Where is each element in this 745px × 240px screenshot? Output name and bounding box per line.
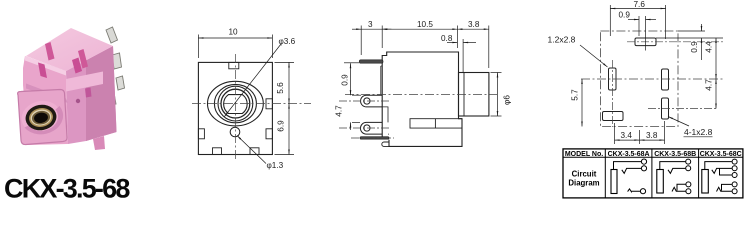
table cell Circuit Diagram — [568, 170, 599, 188]
top view phantom outline — [600, 31, 678, 127]
side view lug 2 — [360, 122, 382, 134]
svg-text:5.6: 5.6 — [276, 82, 285, 94]
photo: groove slot right — [72, 58, 82, 74]
side view barrel — [459, 73, 489, 117]
photo: bottom foot — [93, 136, 105, 150]
top view pad right lower — [662, 98, 669, 119]
dimension phi1.3 leader — [237, 136, 284, 171]
photo: pin top right — [106, 27, 118, 43]
svg-text:10.5: 10.5 — [417, 20, 433, 29]
circuit C top wire — [705, 162, 732, 170]
product photo: pink 3.5mm jack — [18, 27, 125, 150]
svg-text:CKX-3.5-68B: CKX-3.5-68B — [654, 151, 696, 158]
top view centerline vertical top pad — [645, 16, 647, 51]
model number text — [4, 174, 130, 204]
dimension phi3.6 leader — [225, 37, 296, 117]
circuit A terminal 3 — [640, 189, 645, 194]
circuit C switch arm — [712, 168, 732, 173]
circuit C terminal 4 — [732, 182, 737, 187]
svg-text:MODEL No.: MODEL No. — [565, 151, 603, 158]
circuit C sleeve rect — [702, 170, 709, 194]
top view centerline horizontal upper — [627, 41, 723, 43]
circuit B switch arm — [668, 168, 685, 173]
circuit A top wire — [614, 162, 642, 170]
dimension 5.6 / 6.9 — [275, 62, 295, 154]
photo: cap base step — [26, 84, 68, 104]
dimension 10.5 — [382, 20, 457, 48]
side view lug1 centerline — [339, 100, 390, 102]
svg-text:φ1.3: φ1.3 — [267, 161, 284, 170]
photo: right front face — [66, 46, 117, 144]
top view centerline vertical left col — [612, 60, 614, 127]
side view washer line — [463, 73, 465, 117]
photo: left front face — [23, 56, 68, 145]
svg-text:CKX-3.5-68C: CKX-3.5-68C — [700, 151, 742, 158]
table header CKX-3.5-68B — [654, 151, 696, 158]
photo: barrel collar — [18, 90, 67, 145]
circuit B terminal 2 — [686, 166, 691, 171]
front view outer ellipse ring — [208, 81, 264, 126]
photo: metal ring outer — [24, 102, 59, 132]
svg-text:5.7: 5.7 — [571, 89, 580, 101]
dimension 3.4 / 3.8 bottom — [615, 121, 665, 144]
circuit A bottom contact — [628, 189, 640, 192]
svg-text:CKX-3.5-68: CKX-3.5-68 — [4, 174, 130, 201]
dimension 7.6 — [610, 0, 665, 39]
svg-text:4.4: 4.4 — [705, 41, 714, 53]
dimension 10 — [198, 28, 272, 59]
circuit C branch to terminal 3 — [720, 168, 732, 175]
circuit C bottom contact — [717, 187, 732, 191]
dimension 4.7 right — [705, 79, 717, 109]
dimension 0.9 right — [656, 24, 723, 60]
svg-text:4.7: 4.7 — [705, 79, 714, 91]
dimension 3 — [352, 20, 391, 55]
svg-text:3.4: 3.4 — [621, 131, 633, 140]
side view main centerline — [345, 93, 497, 95]
photo: center hole — [33, 112, 49, 124]
circuit B terminal 1 — [686, 159, 691, 164]
photo: front small hole — [76, 99, 80, 103]
circuit C terminal 3 — [732, 173, 737, 178]
side view foot tab — [382, 142, 389, 146]
front view bottom notch right — [250, 148, 259, 155]
svg-text:7.6: 7.6 — [634, 0, 646, 9]
dimension 0.9 top — [619, 11, 657, 37]
photo: barrel boss — [19, 98, 64, 137]
svg-text:3.8: 3.8 — [468, 20, 480, 29]
photo: pin right upper — [112, 53, 122, 69]
photo: top front edge highlight — [25, 56, 66, 76]
circuit C terminal 1 — [732, 159, 737, 164]
table header MODEL No. — [565, 151, 603, 158]
svg-text:Circuit: Circuit — [572, 170, 597, 179]
circuit A terminal 2 — [641, 166, 646, 171]
dimension 0.8 — [441, 34, 476, 73]
dimension 0.9 side — [341, 63, 360, 90]
svg-text:4.7: 4.7 — [335, 105, 344, 117]
front view phi1.3 hole — [230, 127, 240, 137]
circuit A switch arm — [622, 168, 642, 173]
side view slot — [410, 119, 462, 128]
svg-text:Diagram: Diagram — [568, 179, 599, 188]
photo: ring inner shade — [31, 110, 51, 126]
svg-text:1.2x2.8: 1.2x2.8 — [548, 35, 576, 45]
side view top pin — [359, 60, 383, 63]
dimension 3.8 — [457, 20, 488, 68]
photo: pin right lower — [116, 76, 125, 90]
circuit B sleeve rect — [657, 170, 664, 194]
svg-text:3: 3 — [368, 20, 373, 29]
side view lug 1 — [361, 95, 382, 107]
side view left face inner profile — [381, 66, 389, 134]
svg-text:3.8: 3.8 — [646, 131, 658, 140]
front view ring 2 — [214, 84, 256, 122]
side view bottom pin serrated — [360, 137, 389, 140]
photo: right face ledge band — [66, 72, 103, 92]
photo: right face shading — [86, 46, 117, 141]
front view left notch — [198, 129, 204, 139]
top view centerline horizontal mid — [581, 78, 723, 80]
svg-text:0.9: 0.9 — [341, 74, 350, 86]
top view pad left — [609, 68, 617, 90]
dimension 4.4 right — [705, 38, 717, 79]
circuit diagram B — [657, 159, 691, 194]
svg-text:φ6: φ6 — [503, 95, 512, 105]
circuit A sleeve rect — [611, 170, 617, 194]
svg-text:0.9: 0.9 — [690, 41, 699, 53]
svg-text:φ3.6: φ3.6 — [279, 37, 296, 46]
table header CKX-3.5-68C — [700, 151, 742, 158]
top view pad right upper — [662, 69, 669, 90]
table header CKX-3.5-68A — [608, 151, 650, 158]
front view body — [198, 62, 272, 154]
dimension 5.7 top view — [571, 79, 583, 127]
photo: groove slot left — [38, 63, 47, 79]
front view ring 3 — [218, 86, 253, 121]
photo: metal ring gold — [28, 106, 55, 129]
side view bottom pin centerline — [351, 137, 394, 139]
photo: barrel boss rim shade — [25, 106, 64, 134]
photo: top face — [26, 28, 113, 71]
dimension phi6 — [491, 73, 512, 117]
front view vertical centerline — [234, 54, 236, 161]
dimension 1.2x2.8 label — [548, 35, 608, 68]
top view centerline horizontal lower — [648, 108, 718, 110]
circuit C terminal 5 — [732, 189, 737, 194]
svg-text:CKX-3.5-68A: CKX-3.5-68A — [608, 151, 650, 158]
front view right notch lower — [266, 129, 272, 139]
top view pad bottom — [603, 112, 624, 121]
svg-text:0.8: 0.8 — [441, 34, 453, 43]
svg-text:0.9: 0.9 — [619, 11, 631, 20]
photo: top slot left — [45, 42, 55, 61]
circuit B top wire — [660, 162, 686, 170]
dimension 4.7 side — [335, 90, 362, 130]
photo: ring highlight — [29, 108, 52, 127]
front view bottom notch left — [213, 148, 222, 155]
side view body — [382, 52, 462, 146]
circuit B terminal 4 — [686, 189, 691, 194]
top view pad top — [635, 38, 656, 46]
circuit C terminal 2 — [732, 166, 737, 171]
front view window — [224, 95, 248, 114]
photo: pin right bottom — [107, 93, 116, 106]
svg-text:4-1x2.8: 4-1x2.8 — [684, 127, 713, 137]
front view right notch upper — [266, 99, 272, 109]
photo: top slot right — [78, 49, 88, 69]
circuit diagram A — [611, 159, 647, 194]
svg-text:6.9: 6.9 — [277, 120, 286, 132]
photo: right face small slot — [85, 88, 92, 98]
dimension 4-1x2.8 label — [668, 117, 713, 138]
svg-text:10: 10 — [229, 28, 239, 37]
side view lug2 centerline — [339, 127, 390, 129]
table grid — [563, 149, 743, 198]
front view ring 4 — [221, 89, 250, 118]
circuit B terminal 3 — [686, 182, 691, 187]
circuit diagram C — [702, 159, 737, 194]
circuit A terminal 1 — [641, 159, 646, 164]
circuit B bottom contact — [672, 187, 686, 191]
front view top notch — [229, 62, 239, 68]
front view horizontal centerline — [192, 103, 311, 105]
